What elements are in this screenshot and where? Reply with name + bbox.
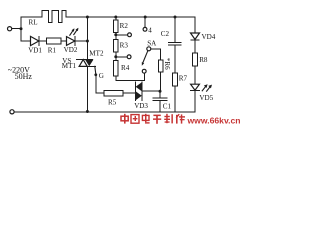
svg-text:R5: R5	[108, 98, 117, 106]
wire: R7 to bottom rail	[174, 86, 176, 112]
svg-text:G: G	[99, 72, 104, 80]
wire: R6 to node B	[159, 72, 162, 91]
contact circle tap2	[127, 55, 131, 59]
wire: tap1 stub	[116, 34, 128, 36]
capacitor C1	[153, 98, 167, 101]
junction dot LED row / MT2 column	[86, 40, 89, 43]
svg-text:50Hz: 50Hz	[15, 72, 33, 81]
svg-text:MT2: MT2	[89, 49, 104, 57]
wire: tap2 stub	[116, 56, 127, 58]
heater load RL element	[42, 11, 66, 23]
wire: J1 down to VD1 row	[21, 29, 31, 41]
wire: top rail to right corner and down to VD4	[66, 17, 195, 33]
diode VD1	[31, 36, 39, 45]
resistor R5	[104, 91, 123, 96]
wire: T1 to node J1	[12, 28, 21, 30]
svg-text:R2: R2	[120, 22, 129, 30]
node B junction dot	[159, 90, 162, 93]
LED VD5	[191, 84, 212, 91]
wire: VD5 to bottom rail	[194, 91, 196, 112]
wire: VD1 to R1	[39, 40, 47, 42]
selector switch SA wiper arm	[143, 51, 148, 63]
watermark CJK char 制	[164, 114, 173, 124]
svg-text:MT1: MT1	[62, 62, 77, 70]
capacitor C2	[169, 43, 181, 46]
svg-text:R1: R1	[48, 46, 57, 54]
junction dot top rail / C2	[174, 16, 177, 19]
wire: R2 to R3	[115, 32, 117, 39]
selector switch SA pivot	[147, 47, 151, 51]
junction dot top rail / R2	[114, 16, 117, 19]
triac VS	[77, 60, 96, 67]
resistor R4	[114, 60, 119, 76]
wire: R3 to R4	[115, 52, 117, 60]
svg-text:4: 4	[148, 26, 152, 34]
junction dot top rail / contact 4	[144, 16, 147, 19]
wire: MT1 to bottom rail	[86, 66, 88, 111]
svg-text:C1: C1	[163, 102, 172, 110]
svg-text:www.66kv.cn: www.66kv.cn	[187, 115, 241, 125]
contact circle 4	[143, 27, 147, 31]
svg-text:C2: C2	[161, 30, 170, 38]
svg-text:R3: R3	[120, 41, 129, 49]
svg-text:VD4: VD4	[202, 33, 216, 41]
tap2 junction dot	[114, 55, 117, 58]
watermark CJK char 子	[153, 115, 161, 124]
resistor R3	[114, 39, 119, 52]
LED VD2	[67, 28, 79, 46]
node J1 junction dot	[20, 27, 23, 30]
gate lead of VS	[95, 66, 96, 74]
watermark CJK char 中	[121, 114, 128, 124]
diode VD4	[191, 33, 200, 40]
svg-text:*R6: *R6	[163, 58, 171, 70]
wire: C2 to R7	[174, 45, 176, 73]
svg-text:VD5: VD5	[199, 94, 213, 102]
tap1 junction dot	[114, 33, 117, 36]
contact circle bottom tap	[142, 69, 146, 73]
svg-text:VD3: VD3	[134, 102, 148, 110]
wire: R1 to VD2	[61, 40, 67, 42]
wire: G down to R5	[96, 75, 104, 93]
svg-text:VD1: VD1	[28, 46, 42, 54]
node G dot	[94, 73, 97, 76]
watermark CJK char 国	[131, 115, 139, 124]
contact circle tap1	[128, 33, 132, 37]
wire: J1 up to RL branch	[21, 17, 42, 29]
junction dot top rail / MT2 column	[86, 16, 89, 19]
junction dot MT1 / bottom rail	[86, 110, 89, 113]
resistor R6	[158, 60, 163, 72]
svg-text:R4: R4	[121, 64, 130, 72]
wire: rail to C2	[174, 17, 176, 43]
wire: R8 to VD5	[194, 66, 196, 84]
svg-text:R8: R8	[199, 56, 208, 64]
wire: VD4 to R8	[194, 40, 196, 53]
wire: MT2 column	[86, 17, 88, 60]
svg-text:RL: RL	[29, 19, 38, 27]
wire: node B to C1	[159, 91, 161, 98]
wire: SA pivot to R6	[151, 49, 161, 60]
watermark CJK char 作	[176, 114, 185, 124]
wire: R5 to diac VD3	[123, 92, 136, 94]
resistor R1	[47, 38, 62, 44]
terminal T1 (top left ~220V input)	[8, 27, 12, 31]
wire: rail to R2	[115, 17, 117, 20]
wire: R4 bottom to selector bottom contact	[116, 73, 145, 81]
svg-text:VD2: VD2	[64, 46, 78, 54]
watermark CJK char 电	[142, 114, 149, 124]
wire: VD3 to node B	[142, 90, 160, 92]
resistor R7	[173, 73, 178, 86]
wire: VD2 to MT2 column	[75, 40, 88, 42]
resistor R2	[114, 20, 119, 32]
wire: C1 to bottom rail	[159, 100, 161, 111]
svg-text:SA: SA	[147, 40, 157, 48]
terminal T2 (bottom left)	[10, 110, 14, 114]
svg-text:R7: R7	[179, 74, 188, 82]
resistor R8	[193, 53, 198, 66]
diac VD3	[136, 82, 142, 101]
bottom rail	[14, 111, 195, 113]
wire: rail stub to contact 4	[144, 17, 146, 27]
